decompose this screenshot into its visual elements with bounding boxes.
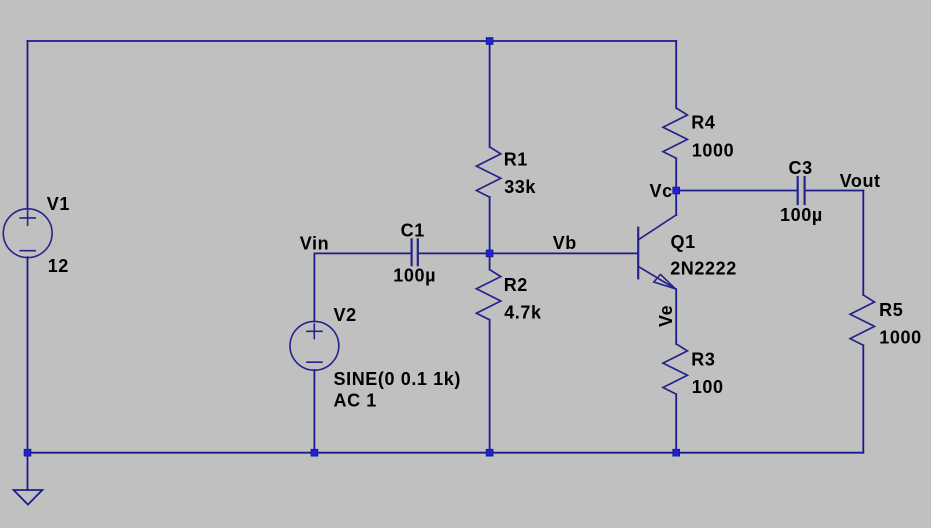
svg-text:Vout: Vout	[840, 171, 881, 191]
wire Vin left (V2 to C1)	[314, 252, 410, 254]
svg-text:R4: R4	[691, 112, 715, 132]
wire R4 top	[675, 41, 677, 108]
wire Vc to C3	[676, 190, 796, 192]
wire top rail	[28, 40, 677, 42]
svg-text:V1: V1	[47, 194, 70, 214]
svg-text:Vb: Vb	[553, 233, 577, 253]
svg-text:C3: C3	[789, 158, 813, 178]
resistor R1	[476, 147, 500, 197]
transistor Q1	[637, 228, 639, 279]
svg-text:R5: R5	[879, 300, 903, 320]
capacitor C3	[797, 177, 799, 204]
junction bottom rail / ground	[24, 449, 31, 456]
wire C3 to Vout corner	[806, 190, 864, 192]
wire Vout down to R5	[862, 191, 864, 295]
resistor R3	[663, 344, 687, 394]
wire ground stub	[27, 453, 29, 490]
wire V2 bottom	[313, 370, 315, 453]
wire R5 bottom	[862, 345, 864, 452]
svg-text:100µ: 100µ	[780, 205, 823, 225]
svg-text:R1: R1	[504, 149, 528, 169]
wire V2 top	[313, 253, 315, 321]
junction bottom rail / R2	[486, 449, 493, 456]
resistor R2	[476, 270, 500, 320]
voltage source V1	[3, 209, 52, 258]
svg-text:AC 1: AC 1	[334, 391, 377, 411]
wire Vin right (C1 to Vb node)	[419, 252, 490, 254]
svg-text:100µ: 100µ	[393, 266, 436, 286]
svg-text:R2: R2	[504, 275, 528, 295]
svg-text:Ve: Ve	[656, 305, 676, 327]
svg-text:V2: V2	[334, 305, 357, 325]
svg-text:1000: 1000	[879, 328, 921, 348]
resistor R5	[850, 295, 874, 345]
svg-text:C1: C1	[401, 221, 425, 241]
svg-text:4.7k: 4.7k	[504, 302, 542, 322]
junction bottom rail / V2	[311, 449, 318, 456]
svg-text:2N2222: 2N2222	[670, 259, 737, 279]
wire R1 bottom	[489, 197, 491, 254]
junction Vc node	[673, 187, 680, 194]
svg-text:33k: 33k	[504, 177, 536, 197]
junction Vb node	[486, 250, 493, 257]
wire R2 bottom	[489, 320, 491, 453]
svg-text:Vin: Vin	[300, 234, 329, 254]
wire R1 top	[489, 41, 491, 147]
svg-text:1000: 1000	[692, 141, 734, 161]
wire Q1 emitter down	[675, 289, 677, 344]
wire bottom rail	[28, 452, 864, 454]
svg-text:12: 12	[48, 256, 69, 276]
svg-text:R3: R3	[691, 349, 715, 369]
wire Q1 collector stub	[675, 191, 677, 216]
svg-text:SINE(0 0.1 1k): SINE(0 0.1 1k)	[334, 369, 461, 389]
wire left rail upper (to V1)	[27, 41, 29, 209]
svg-text:Q1: Q1	[671, 232, 696, 252]
capacitor C1	[411, 239, 413, 265]
svg-text:100: 100	[692, 377, 724, 397]
resistor R4	[663, 108, 687, 158]
junction top rail / R1	[486, 38, 493, 45]
svg-text:Vc: Vc	[649, 181, 672, 201]
junction bottom rail / R3	[673, 449, 680, 456]
wire Vb (node to Q1 base)	[490, 252, 638, 254]
ground	[14, 490, 43, 505]
voltage source V2	[290, 321, 339, 370]
wire R3 bottom	[675, 394, 677, 452]
wire R2 top stub	[489, 253, 491, 269]
wire R4 bottom	[675, 158, 677, 190]
wire left rail lower (V1 to bottom rail)	[27, 257, 29, 453]
